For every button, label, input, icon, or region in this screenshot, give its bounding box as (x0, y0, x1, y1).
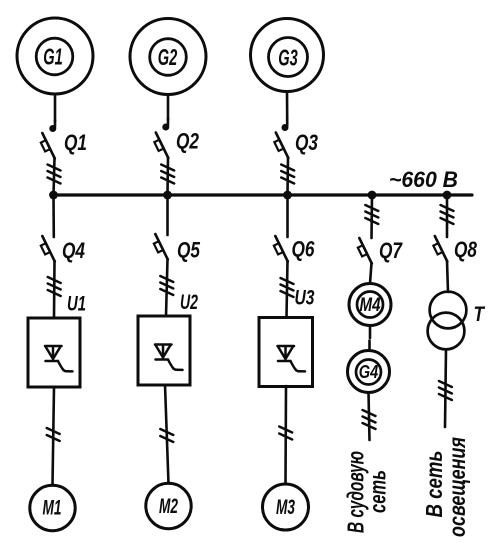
breaker Q5 (154, 234, 201, 263)
generator G4 (348, 351, 390, 393)
wire Q4 to U1 with 3-phase marks (48, 261, 61, 317)
motor M2 (146, 483, 191, 528)
svg-text:G2: G2 (158, 44, 178, 70)
wire Q2 to bus with 3-phase marks (161, 158, 174, 196)
svg-text:M1: M1 (43, 497, 62, 520)
wire Q3 to bus with 3-phase marks (281, 158, 294, 196)
svg-text:U2: U2 (180, 291, 198, 314)
wire G4 to ship network with 3-phase marks (363, 393, 376, 441)
svg-text:G1: G1 (43, 44, 63, 70)
wire bus to Q6 (286, 195, 289, 237)
node junction 3 (283, 191, 292, 200)
wire U1 to M1 with 2 marks (47, 387, 60, 485)
node junction 4 (368, 191, 377, 200)
node junction 2 (163, 191, 172, 200)
label В сеть освещения (421, 437, 470, 537)
motor M4 (349, 284, 391, 326)
generator G1 (17, 18, 93, 94)
svg-text:Q6: Q6 (292, 237, 316, 262)
wire Q5 to U2 with 3-phase marks (160, 259, 173, 316)
converter U1 (28, 293, 86, 388)
converter U3 (259, 287, 315, 387)
svg-text:M2: M2 (159, 495, 178, 518)
svg-text:U1: U1 (67, 293, 86, 316)
wire G1 to Q1 (51, 94, 56, 131)
generator G3 (251, 19, 324, 92)
wire bus to Q8 with 3-phase marks (441, 195, 454, 237)
wire bus to Q5 (166, 195, 169, 235)
wire bus to Q7 with 3-phase marks (365, 195, 378, 238)
svg-text:Q1: Q1 (64, 130, 87, 155)
svg-text:сеть: сеть (365, 470, 391, 513)
node junction 1 (49, 191, 58, 200)
svg-text:T: T (474, 303, 486, 326)
svg-text:Q7: Q7 (379, 238, 403, 263)
wire M4 to G4 (368, 326, 371, 351)
wire bus to Q4 (52, 195, 55, 237)
svg-text:Q4: Q4 (62, 238, 85, 263)
wire Q6 to U3 with 3-phase marks (281, 261, 294, 317)
label В судовую сеть (343, 451, 391, 533)
generator G2 (130, 19, 206, 95)
wire Q8 to T (447, 261, 448, 292)
breaker Q7 (358, 238, 404, 264)
svg-text:M3: M3 (276, 496, 295, 519)
svg-text:M4: M4 (360, 295, 381, 316)
motor M3 (263, 484, 309, 530)
bus bar 660V (53, 193, 472, 196)
breaker Q3 (274, 130, 318, 158)
wire Q7 to M4 (370, 263, 372, 284)
node junction 5 (443, 191, 452, 200)
breaker Q1 (41, 130, 87, 159)
wire Q1 to bus with 3-phase marks (48, 158, 61, 195)
converter U2 (138, 291, 198, 385)
svg-text:Q3: Q3 (295, 130, 318, 155)
wire G3 to Q3 (283, 92, 288, 130)
breaker Q6 (274, 236, 315, 262)
breaker Q2 (154, 129, 199, 159)
transformer T (428, 292, 486, 350)
svg-text:G3: G3 (278, 45, 298, 71)
motor M1 (30, 485, 75, 530)
wire U3 to M3 with 2 marks (279, 386, 292, 484)
svg-text:G4: G4 (359, 362, 379, 382)
svg-text:Q2: Q2 (176, 129, 200, 154)
wire U2 to M2 with 2 marks (160, 385, 173, 484)
wire G2 to Q2 (164, 95, 169, 130)
svg-text:Q8: Q8 (454, 237, 478, 262)
wire T to lighting network with 3-phase marks (439, 350, 452, 428)
svg-text:U3: U3 (295, 287, 315, 310)
breaker Q4 (41, 236, 85, 263)
svg-text:~660 В: ~660 В (389, 167, 458, 192)
svg-text:освещения: освещения (444, 437, 470, 537)
svg-text:Q5: Q5 (177, 238, 201, 263)
breaker Q8 (433, 236, 477, 262)
